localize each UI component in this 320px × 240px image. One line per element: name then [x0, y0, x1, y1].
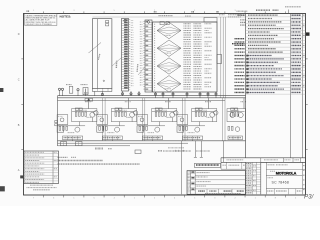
connector P2 index diamond — [147, 20, 150, 23]
transistor Q5B — [238, 113, 243, 118]
lower bus wire 1 — [58, 140, 246, 142]
amplifier stage A2 feed wire — [127, 98, 129, 109]
input pin E3 — [58, 88, 60, 90]
transistor Q1B — [94, 111, 98, 115]
second stage rail — [177, 125, 205, 127]
stage labels — [68, 117, 93, 132]
wire list rows text — [25, 152, 57, 182]
stage box A4 — [192, 109, 217, 122]
junction parts below bus — [85, 99, 93, 102]
pin label — [84, 92, 89, 94]
amplifier stage A5 feed wire — [243, 98, 245, 109]
detector box CR2 — [97, 115, 108, 125]
resistor network 4 — [195, 110, 207, 116]
junction node — [88, 100, 90, 102]
company block — [261, 162, 306, 194]
zone ticks right — [306, 59, 308, 150]
stage box A3 — [152, 109, 177, 122]
feed junction label — [125, 101, 131, 103]
footnote text line 1 — [58, 160, 104, 162]
capacitor C11 — [76, 142, 83, 146]
zone ticks top — [33, 10, 285, 13]
transistor Q2B — [133, 111, 137, 115]
resistor network 2 — [115, 110, 127, 116]
approval cells row — [198, 189, 244, 194]
amplifier stage A1 feed wire — [88, 98, 90, 109]
scale sheet row — [267, 189, 301, 195]
relay K1 — [69, 86, 73, 93]
title block main frame — [187, 171, 246, 195]
terminal strip TB4 — [183, 136, 203, 140]
size cell text — [268, 177, 274, 179]
parts list table frame — [246, 14, 303, 158]
cable bundle diamond 4 — [157, 76, 181, 92]
emitter lead — [211, 118, 213, 122]
board pin lead — [101, 91, 103, 95]
long output wire B — [194, 141, 196, 158]
harness pin lead — [155, 92, 157, 98]
input pin E4 — [61, 88, 63, 90]
rev narrow col marks — [303, 166, 305, 190]
shield board outline A1 — [92, 19, 112, 89]
svg-text:NOTES:: NOTES: — [60, 15, 72, 19]
transistor Q4B — [214, 111, 218, 115]
main bus wire lower — [58, 99, 226, 101]
strip drop wire — [111, 140, 113, 141]
detector box CR1 — [57, 115, 68, 125]
transistor Q4C — [195, 127, 200, 132]
bias resistors R4A — [195, 108, 202, 111]
leader line — [138, 68, 144, 75]
transistor Q2C — [115, 127, 120, 132]
input pin E5 — [77, 89, 79, 91]
stage box A5 — [227, 109, 246, 122]
cable bundle diamond 3 — [157, 58, 181, 74]
stage rail wire — [72, 111, 96, 113]
capacitor C10 — [61, 142, 67, 146]
stage rail wire — [112, 111, 136, 113]
component labels — [66, 84, 88, 86]
resistors R1B — [59, 124, 68, 130]
harness pin — [172, 93, 174, 95]
svg-text:P3/: P3/ — [304, 194, 315, 201]
material list sub-table — [246, 162, 261, 194]
rail capacitor C8 — [55, 121, 58, 123]
stage labels — [148, 117, 173, 132]
leader line to board — [89, 43, 102, 54]
strip drop wire — [192, 140, 194, 141]
bundle termination dots — [153, 24, 156, 91]
svg-text:D: D — [18, 33, 20, 36]
board pin lead — [94, 91, 96, 95]
transistor Q3A — [170, 112, 175, 117]
rail capacitor C9 — [55, 124, 58, 126]
harness pin lead — [207, 92, 209, 98]
harness pin — [162, 93, 164, 95]
pin lead — [130, 91, 132, 96]
inter-stage wires — [223, 98, 226, 141]
handwritten corner mark — [0, 186, 5, 191]
stage drop wire — [199, 122, 201, 126]
feed junction label — [241, 101, 247, 103]
inter-stage wires — [183, 98, 186, 141]
connector P1 label — [115, 61, 117, 68]
board footer strip — [92, 88, 112, 91]
svg-text:REF ASSY DWG 01-P78468B001: REF ASSY DWG 01-P78468B001 — [26, 23, 52, 26]
terminal strip TB3 — [143, 136, 163, 140]
inter-stage wires — [142, 98, 145, 141]
connector P2 pin numbers — [140, 22, 143, 85]
stage box A2 — [111, 109, 136, 122]
transistor Q5A — [230, 113, 235, 118]
test point marks — [95, 148, 112, 150]
zone ticks left — [18, 33, 24, 172]
stage rail wire — [152, 111, 176, 113]
transistor Q1C — [75, 127, 80, 132]
resistor network 5 — [230, 110, 239, 116]
emitter lead — [91, 118, 93, 122]
detector box CR3 — [137, 115, 148, 125]
stage drop wire — [159, 122, 161, 126]
board ref label — [98, 54, 100, 60]
terminal block TB1 — [106, 21, 109, 26]
board pin E2 — [101, 93, 103, 95]
connector P2 body — [145, 20, 152, 92]
zone flag marker right edge — [306, 32, 310, 35]
board pin lead — [84, 89, 86, 96]
harness pin lead — [172, 92, 174, 98]
svg-text:C: C — [18, 78, 20, 81]
signature column rows — [187, 171, 195, 192]
bias resistors R3A — [155, 108, 162, 111]
pin lead — [138, 91, 140, 96]
small box Z1 — [57, 126, 64, 132]
second row parts — [228, 126, 240, 131]
harness pin — [207, 93, 209, 95]
stage drop wire — [79, 122, 81, 126]
harness pin lead — [162, 92, 164, 98]
transistor Q2A — [130, 112, 135, 117]
capacitor C1 block — [83, 88, 88, 95]
wire run list table — [24, 151, 59, 184]
strip drop wire — [152, 140, 154, 141]
filter FL1 — [160, 22, 169, 25]
feed junction label — [165, 101, 171, 103]
wire B foot — [194, 156, 197, 158]
detector box CR4 — [177, 115, 188, 125]
resistor network 1 — [75, 110, 87, 116]
long output wire A — [180, 141, 182, 194]
contract header strip — [221, 158, 306, 163]
stage labels — [107, 117, 132, 132]
terminal strip TB5 — [228, 136, 243, 140]
transistor Q3C — [155, 127, 160, 132]
stage rail wire — [192, 111, 216, 113]
transistor Q4A — [210, 112, 215, 117]
feed junction label — [85, 101, 91, 103]
parts list header — [256, 7, 301, 14]
terminal strip TB1 — [63, 136, 83, 140]
harness pin — [199, 93, 201, 95]
parts list rows text — [232, 15, 305, 93]
harness pin lead — [215, 92, 217, 98]
connector P1 pin numbers — [131, 20, 134, 85]
pin — [121, 93, 123, 95]
stage box A1 — [72, 109, 97, 122]
svg-text:SC 78468: SC 78468 — [272, 180, 290, 184]
title rows — [195, 173, 245, 189]
long output wire C — [200, 141, 202, 158]
amplifier stage A3 feed wire — [168, 98, 170, 109]
terminal strip TB2 — [102, 136, 122, 140]
pin — [130, 93, 132, 95]
sheet border — [24, 14, 306, 196]
bias resistors R2A — [115, 108, 122, 111]
wire list text columns — [184, 24, 212, 89]
pin lead — [122, 91, 124, 96]
table caption line 2 — [27, 187, 57, 189]
strip drop wire — [72, 140, 74, 141]
parts list row lines — [246, 17, 306, 94]
table caption line 3 — [33, 189, 50, 191]
cable bundle diamond 2 — [157, 40, 181, 56]
stage labels — [188, 117, 213, 132]
small box Z2 — [97, 126, 104, 132]
svg-text:MOTOROLA: MOTOROLA — [276, 171, 297, 175]
pin — [138, 93, 140, 95]
harness pin — [215, 93, 217, 95]
bias resistors R1A — [75, 108, 82, 111]
corner zone label — [27, 10, 30, 12]
node dots — [175, 150, 184, 151]
transistor Q1A — [90, 112, 95, 117]
resistors R4B — [179, 124, 188, 130]
leader line — [112, 58, 121, 66]
footnote marks — [58, 156, 77, 158]
harness pin — [186, 93, 188, 95]
bias resistors R5A — [231, 108, 238, 111]
wire label — [136, 64, 139, 72]
table caption line 1 — [30, 184, 53, 186]
wire tag labels — [159, 11, 248, 25]
connector P2 pin ticks — [143, 21, 145, 89]
lower bus wire 3 — [58, 145, 131, 147]
emitter lead — [171, 118, 173, 122]
handwritten mark — [20, 175, 23, 178]
board mounting dot — [103, 80, 104, 81]
zone ticks bottom — [33, 195, 297, 200]
logo subtitle — [270, 170, 275, 172]
left rail wire — [57, 96, 59, 146]
cable bundle diamond 1 — [157, 22, 181, 38]
general notes box — [25, 14, 57, 26]
proprietary bottom text — [205, 193, 241, 195]
second header row — [221, 162, 246, 169]
footnote text line 2 — [58, 163, 141, 165]
second stage rail — [57, 125, 85, 127]
stage rail wire — [228, 111, 245, 113]
feed junction label — [205, 101, 211, 103]
main bus wire middle — [58, 97, 246, 99]
lower bus wire 2 — [58, 142, 189, 144]
resistor network 3 — [155, 110, 167, 116]
resistors R2B — [98, 124, 107, 130]
used-on header box — [195, 163, 221, 167]
connector P1 index diamond — [123, 19, 126, 22]
second stage rail — [97, 125, 125, 127]
small box Z4 — [177, 126, 184, 132]
jumper labels — [158, 148, 210, 151]
resistor R30 — [135, 150, 141, 154]
harness assembly box W1 — [153, 18, 222, 93]
top bus wire — [92, 16, 245, 18]
long output wire D — [223, 141, 225, 163]
small box Z3 — [137, 126, 144, 132]
inter-stage wires — [103, 98, 106, 141]
drawing number cell — [266, 176, 305, 189]
harness pin — [154, 93, 156, 95]
wire C foot — [200, 156, 203, 158]
emitter lead — [131, 118, 133, 122]
main bus wire upper — [58, 95, 246, 97]
second stage rail — [137, 125, 165, 127]
harness pin lead — [199, 92, 201, 98]
top border tick labels — [154, 11, 219, 13]
amplifier stage A4 feed wire — [208, 98, 210, 109]
scan mark left edge — [0, 88, 3, 92]
harness pin lead — [186, 92, 188, 98]
vertical feed wires — [221, 17, 226, 98]
connector P1 pin ticks — [129, 20, 131, 90]
resistors R3B — [139, 124, 148, 130]
stage drop wire — [118, 122, 120, 126]
connector P1 body — [122, 19, 129, 92]
transistor Q3B — [174, 111, 178, 115]
